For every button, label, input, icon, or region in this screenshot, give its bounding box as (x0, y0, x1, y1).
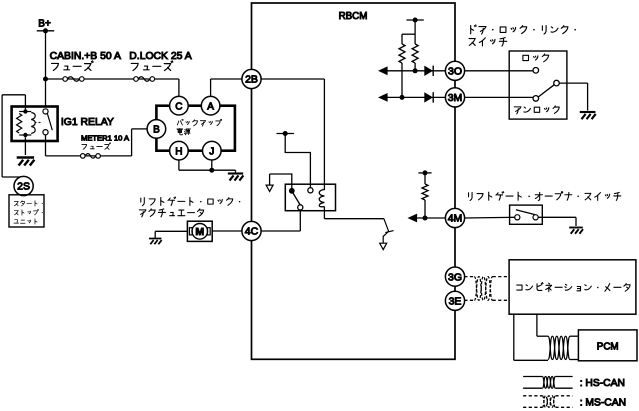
svg-text:: HS-CAN: : HS-CAN (580, 378, 625, 389)
svg-text:4C: 4C (245, 226, 259, 238)
svg-text:2B: 2B (245, 74, 258, 86)
svg-text:B+: B+ (38, 19, 51, 30)
svg-text:3E: 3E (449, 296, 462, 308)
svg-text:: MS-CAN: : MS-CAN (580, 397, 626, 408)
svg-text:CABIN.+B 50 A: CABIN.+B 50 A (50, 51, 121, 62)
svg-text:RBCM: RBCM (339, 11, 368, 22)
svg-text:3M: 3M (448, 92, 463, 104)
svg-text:IG1 RELAY: IG1 RELAY (61, 117, 114, 128)
svg-text:METER1 10 A: METER1 10 A (81, 133, 130, 142)
svg-text:PCM: PCM (597, 342, 619, 353)
svg-text:C: C (175, 101, 182, 112)
svg-text:2S: 2S (17, 181, 30, 193)
svg-text:B: B (153, 125, 160, 136)
svg-text:H: H (175, 146, 182, 157)
svg-text:D.LOCK 25 A: D.LOCK 25 A (129, 51, 191, 62)
svg-text:M: M (195, 226, 204, 238)
svg-text:3O: 3O (448, 66, 462, 78)
svg-text:4M: 4M (448, 213, 463, 225)
svg-text:J: J (209, 146, 214, 157)
svg-text:A: A (207, 101, 214, 112)
svg-text:3G: 3G (448, 271, 462, 283)
